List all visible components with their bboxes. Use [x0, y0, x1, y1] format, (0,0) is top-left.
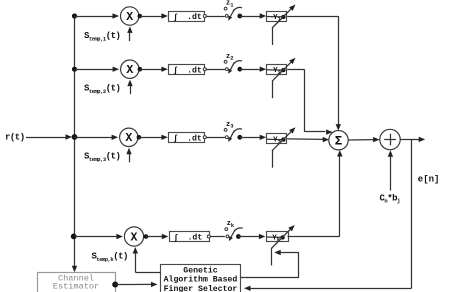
- variable gain Y1: [267, 5, 296, 29]
- svg-text:X: X: [125, 132, 132, 145]
- wire integrator to switch row4: [210, 236, 225, 238]
- svg-text:Stemp,k(t): Stemp,k(t): [92, 251, 128, 263]
- wire S template input row2: [127, 80, 132, 95]
- node switch output row4: [236, 234, 241, 239]
- node bus junction row3: [72, 134, 78, 140]
- multiplier X1: [121, 7, 139, 25]
- label S_temp,k(t) row4: [92, 251, 128, 263]
- svg-text:X: X: [126, 11, 133, 24]
- wire row4 gain to summer: [288, 150, 343, 237]
- wire feedback from output to finger selector: [244, 139, 412, 291]
- wire gain control stub row4: [271, 248, 273, 266]
- svg-text:Y2: Y2: [273, 67, 281, 76]
- label z_3 row3: [226, 121, 234, 130]
- variable gain Yk: [266, 225, 295, 249]
- wire bus to multiplier row2: [75, 67, 120, 72]
- switch SW2: [224, 60, 242, 73]
- wire bus to multiplier row3: [75, 135, 119, 140]
- wire switch to gain row3: [240, 135, 266, 140]
- svg-text:∫: ∫: [173, 13, 178, 22]
- variable gain Y3: [267, 127, 296, 151]
- svg-text:.dt: .dt: [187, 65, 202, 75]
- wire integrator to switch row2: [206, 69, 225, 71]
- svg-text:.dt: .dt: [187, 12, 202, 22]
- wire bus to multiplier row4: [75, 234, 123, 239]
- wire integrator to switch row3: [206, 137, 225, 139]
- label e[n]: [418, 174, 440, 184]
- svg-text:Σ: Σ: [335, 135, 343, 149]
- switch SW1: [224, 7, 242, 20]
- node switch output row2: [237, 67, 242, 72]
- wire row1 gain to summer: [287, 16, 341, 131]
- switch SW3: [224, 129, 242, 142]
- label S_temp,3(t) row3: [84, 152, 120, 164]
- wire multiplier to integrator row4: [146, 234, 168, 239]
- wire switch to gain row2: [240, 67, 266, 72]
- svg-text:∫: ∫: [173, 67, 178, 76]
- wire row3 gain to summer: [287, 137, 329, 142]
- wire bus to channel estimator: [72, 266, 77, 273]
- svg-text:Y3: Y3: [273, 137, 282, 146]
- svg-text:∫: ∫: [173, 135, 178, 144]
- wire S template input row1: [127, 26, 132, 41]
- node multiplier output row2: [138, 67, 143, 72]
- multiplier X4: [124, 227, 143, 246]
- wire switch to gain row4: [238, 234, 265, 239]
- multiplier X3: [120, 128, 138, 146]
- wire row2 gain to summer: [287, 69, 332, 135]
- adder PLUS: [380, 129, 400, 149]
- label Cn*bj: [380, 194, 401, 205]
- label z_2 row2: [226, 53, 234, 62]
- summer SIGMA: [329, 131, 348, 150]
- wire finger selector to S_temp,k: [133, 247, 161, 273]
- label z_k row4: [227, 220, 235, 229]
- svg-text:Algorithm Based: Algorithm Based: [164, 275, 238, 285]
- label z_1 row1: [226, 0, 234, 8]
- integrator INT1: [169, 12, 205, 23]
- label r(t): [5, 133, 25, 143]
- integrator INT2: [169, 65, 205, 76]
- wire multiplier to integrator row1: [140, 13, 168, 18]
- node switch output row3: [237, 135, 242, 140]
- svg-text:z1: z1: [226, 0, 234, 8]
- wire adder output e[n]: [400, 137, 425, 142]
- svg-text:zk: zk: [227, 220, 235, 229]
- node switch output row1: [237, 14, 242, 19]
- svg-text:Stemp,2(t): Stemp,2(t): [84, 84, 120, 96]
- wire switch to gain row1: [240, 13, 266, 18]
- svg-text:.dt: .dt: [188, 233, 203, 243]
- svg-text:∫: ∫: [174, 234, 179, 243]
- svg-text:z3: z3: [226, 121, 234, 130]
- svg-text:Genetic: Genetic: [183, 265, 217, 275]
- node bus junction row2: [72, 67, 77, 72]
- svg-text:.dt: .dt: [187, 134, 202, 144]
- wire input bus vertical: [74, 16, 76, 268]
- node bus junction row1: [72, 13, 77, 18]
- svg-text:Stemp,3(t): Stemp,3(t): [84, 152, 120, 164]
- svg-text:r(t): r(t): [5, 133, 25, 143]
- wire bus to multiplier row1: [75, 13, 120, 18]
- svg-text:Estimator: Estimator: [53, 282, 99, 292]
- terminal circle integrator output row3: [203, 136, 206, 139]
- wire S template input row3: [126, 148, 131, 163]
- node multiplier output row4: [144, 234, 149, 239]
- wire multiplier to integrator row3: [139, 135, 168, 140]
- svg-text:Stemp,1(t): Stemp,1(t): [84, 31, 120, 43]
- svg-text:Yk: Yk: [272, 234, 281, 243]
- label S_temp,2(t) row2: [84, 84, 120, 96]
- block Genetic Algorithm Based Finger Selector: [161, 265, 241, 292]
- terminal circle integrator output row1: [203, 15, 206, 18]
- wire finger selector to gain Yk control: [241, 250, 299, 278]
- svg-text:X: X: [131, 231, 138, 244]
- wire gain control stub row2: [272, 81, 274, 99]
- switch SW4: [225, 228, 243, 241]
- node multiplier output row1: [138, 14, 143, 19]
- wire summer to adder: [348, 137, 379, 142]
- integrator INT4: [170, 232, 210, 243]
- terminal circle integrator output row4: [207, 235, 210, 238]
- wire multiplier to integrator row2: [140, 67, 168, 72]
- block Channel Estimator: [38, 273, 116, 292]
- terminal circle integrator output row2: [203, 68, 206, 71]
- variable gain Y2: [267, 58, 296, 81]
- integrator INT3: [169, 133, 205, 144]
- wire gain control stub row3: [272, 150, 274, 168]
- svg-text:z2: z2: [226, 53, 234, 62]
- wire Cn*bj input to adder: [388, 150, 393, 190]
- wire channel estimator to finger selector: [115, 282, 157, 287]
- svg-text:X: X: [126, 64, 133, 77]
- multiplier X2: [121, 60, 139, 78]
- svg-text:e[n]: e[n]: [418, 174, 440, 184]
- wire integrator to switch row1: [206, 16, 225, 18]
- wire gain control stub row1: [272, 28, 274, 46]
- label S_temp,1(t) row1: [84, 31, 120, 43]
- wire r(t) input: [26, 134, 72, 139]
- node bus junction row4: [71, 234, 77, 240]
- svg-text:Cn*bj: Cn*bj: [380, 194, 401, 205]
- svg-text:Y1: Y1: [273, 14, 282, 23]
- node multiplier output row3: [137, 135, 142, 140]
- node channel estimator output: [112, 282, 118, 288]
- svg-text:Finger Selector: Finger Selector: [164, 284, 238, 292]
